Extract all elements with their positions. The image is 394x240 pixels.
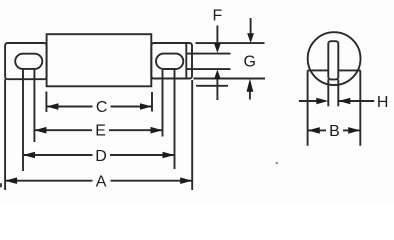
svg-text:C: C — [96, 99, 108, 116]
extension line B left — [307, 70, 309, 145]
right mounting tab — [151, 43, 192, 79]
svg-text:D: D — [95, 148, 107, 165]
end view slot — [328, 41, 338, 79]
arrow A left — [5, 177, 17, 184]
dimension line A — [5, 180, 92, 182]
extension line A left — [4, 79, 6, 190]
svg-text:A: A — [96, 173, 107, 190]
svg-text:B: B — [329, 123, 340, 140]
arrow E left — [34, 127, 46, 134]
scan speck dot — [276, 162, 278, 164]
arrow E right — [151, 127, 163, 134]
svg-text:E: E — [95, 123, 106, 140]
extension line slot bottom right (F lower) — [186, 68, 231, 70]
right tab slot — [156, 54, 183, 69]
scan speck left edge — [0, 183, 2, 187]
dimension line H right segment — [338, 100, 374, 102]
svg-text:G: G — [243, 53, 255, 70]
extension line B right — [359, 70, 361, 145]
left mounting tab — [5, 43, 47, 79]
arrow D right — [163, 152, 175, 159]
svg-text:F: F — [213, 7, 223, 24]
arrow D left — [23, 152, 35, 159]
extension line A right — [191, 80, 193, 190]
extension line H left — [327, 79, 329, 106]
dimension line D — [23, 154, 93, 156]
arrow C left — [46, 103, 58, 110]
extension line tab bottom right (G lower) — [194, 78, 266, 80]
dimension G lower arrow — [249, 91, 251, 100]
extension line C left — [45, 92, 47, 113]
end view ferrule circle — [308, 32, 361, 85]
extension line E left — [33, 69, 35, 142]
left tab slot — [15, 54, 42, 69]
extension line tab top right (G upper) — [196, 42, 265, 44]
dimension G upper arrow — [250, 18, 252, 35]
extension line slot top right (F upper) — [186, 53, 231, 55]
extension line E right — [162, 70, 164, 137]
arrow C right — [140, 103, 152, 110]
extension line D right — [174, 70, 176, 169]
end view tab edge chord line left — [308, 69, 329, 71]
svg-text:H: H — [377, 94, 389, 111]
dimension line C — [46, 106, 92, 108]
dimension line B right segment — [343, 129, 360, 131]
right tab end bend line — [185, 43, 187, 79]
dimension line H left segment — [299, 100, 317, 102]
extension line D left — [22, 69, 24, 171]
extension line C right — [151, 92, 153, 112]
dimension line B left segment — [308, 129, 326, 131]
dimension line E — [34, 129, 92, 131]
dimension F upper arrow — [216, 26, 218, 45]
extension line H right — [337, 79, 339, 106]
arrow A right — [180, 177, 192, 184]
dimension F lower arrow — [216, 79, 218, 101]
end view tab edge chord line right — [339, 69, 361, 71]
fuse body (side view) — [47, 34, 152, 86]
extension line body bottom right — [196, 85, 228, 87]
